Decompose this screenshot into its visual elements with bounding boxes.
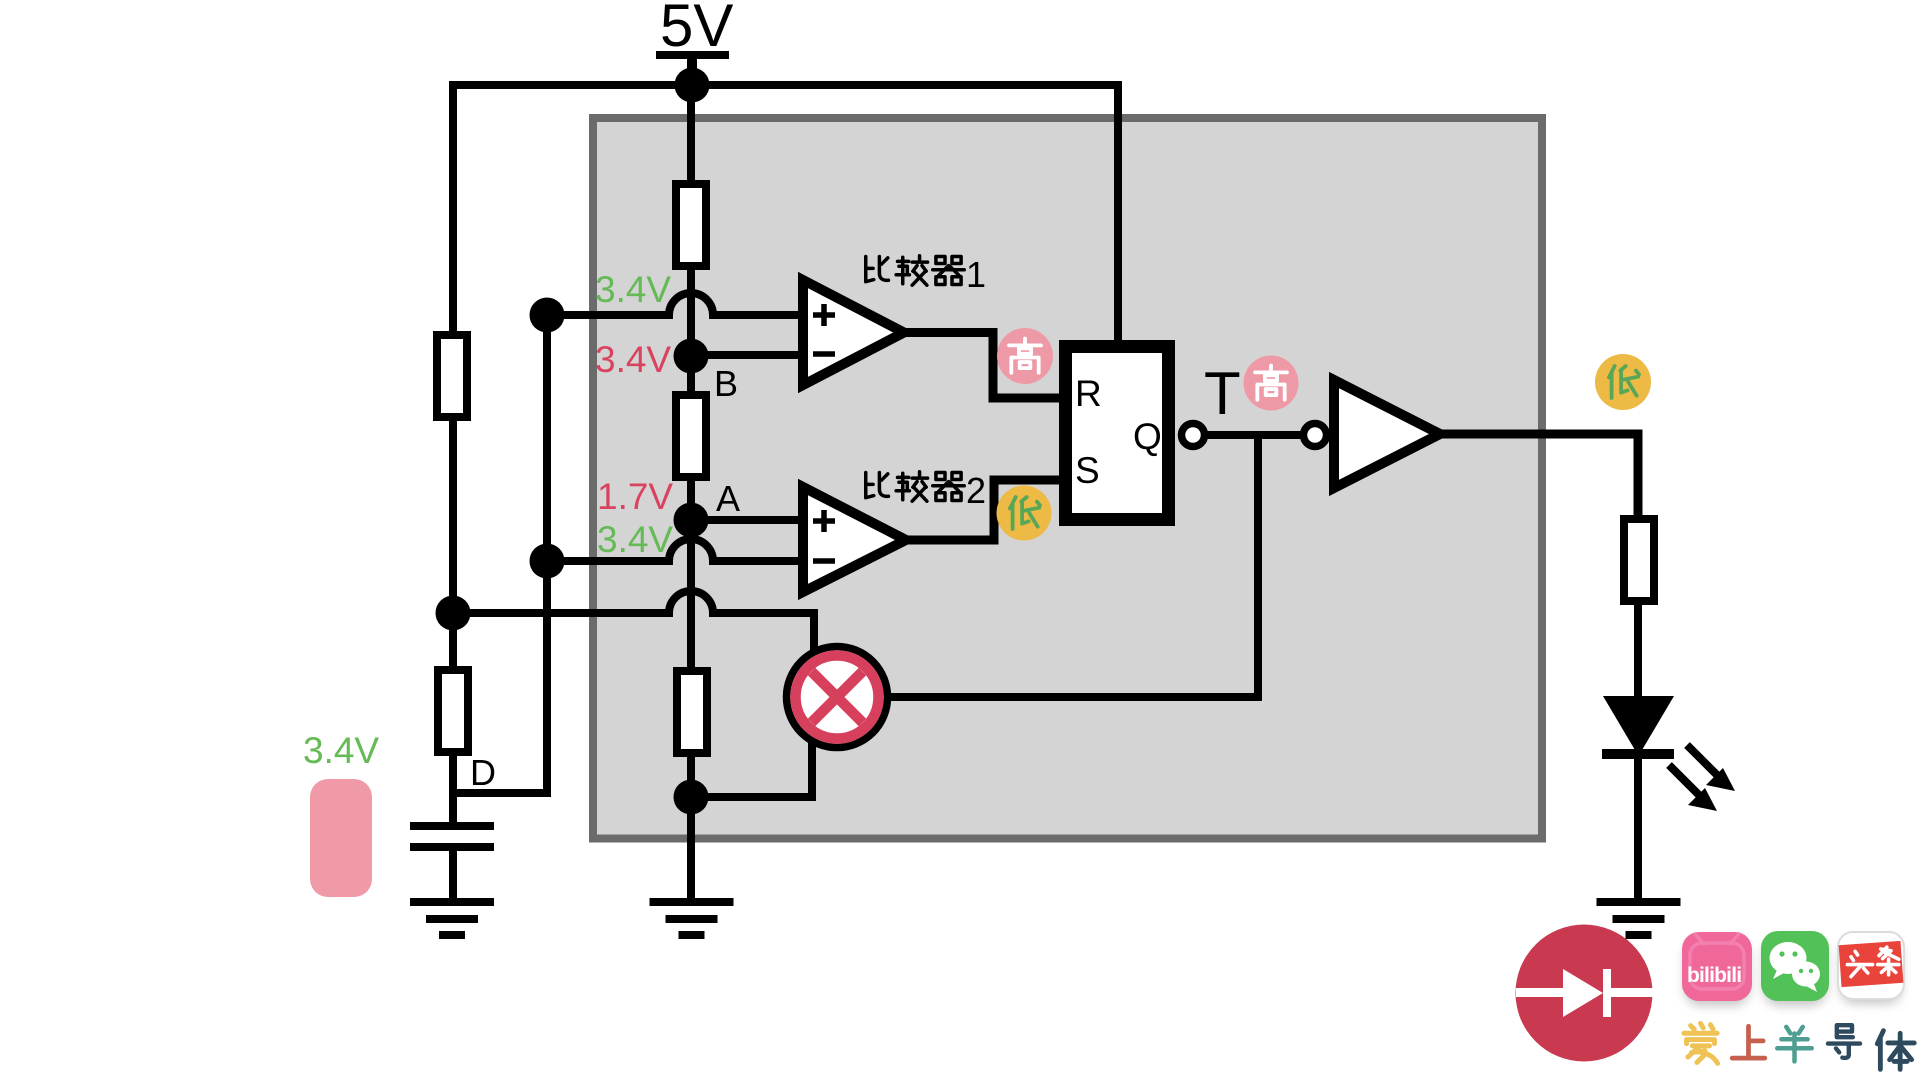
svg-text:D: D [470, 752, 496, 793]
badge low output [1595, 354, 1651, 410]
svg-text:S: S [1075, 450, 1100, 491]
LED D1 [1602, 696, 1735, 811]
wire control rail x546 [455, 315, 547, 793]
svg-text:3.4V: 3.4V [595, 339, 671, 380]
node left mid junction [530, 544, 565, 579]
logo red diode circle [1516, 925, 1654, 1062]
wire discharge bottom link [691, 742, 812, 797]
wire LED to ground [1634, 757, 1642, 898]
comparator U1 triangle [803, 280, 904, 385]
label comparator1 title [866, 254, 986, 295]
capacitor C [410, 822, 494, 898]
label comparator2 title [866, 470, 986, 511]
wire resistor chain [687, 85, 695, 898]
logo wechat icon [1761, 931, 1829, 1001]
badge high comparator1 output [997, 328, 1053, 384]
svg-text:2: 2 [966, 470, 986, 511]
comparator U2 triangle [803, 487, 906, 592]
svg-text:3.4V: 3.4V [597, 519, 673, 560]
IC body gray box [593, 118, 1542, 839]
wire T line [1205, 431, 1302, 439]
resistor left lower [438, 670, 468, 752]
capacitor voltage pink marker [310, 779, 372, 897]
buffer U4 triangle [1334, 380, 1440, 488]
wire output to LED branch [1438, 434, 1638, 519]
wire top rail [453, 85, 1118, 345]
wire discharge to T line [885, 435, 1258, 697]
resistor right [1624, 519, 1654, 601]
logo bilibili icon [1682, 932, 1752, 1001]
svg-text:Q: Q [1133, 416, 1162, 457]
svg-text:1.7V: 1.7V [597, 476, 673, 517]
svg-text:5V: 5V [660, 0, 733, 59]
svg-text:T: T [1204, 360, 1241, 427]
ground right [1597, 898, 1681, 939]
discharge transistor lamp symbol [787, 647, 888, 748]
icon shadows [1684, 939, 1902, 1006]
node B junction [674, 339, 709, 374]
5V supply symbol [656, 0, 733, 85]
wire threshold line to comparator1 + with hop [547, 293, 807, 315]
svg-text:B: B [714, 363, 738, 404]
wire left rail [449, 85, 457, 822]
ground center [650, 898, 734, 939]
node buffer input bubble [1304, 424, 1327, 447]
wire trigger line to comparator2 - with hop [547, 539, 807, 561]
svg-text:3.4V: 3.4V [303, 730, 379, 771]
badge low comparator2 output [997, 486, 1052, 541]
wire comparator2 output to S [904, 480, 1062, 540]
node 5V junction [675, 68, 710, 103]
wire node A to comparator2 + [691, 516, 807, 524]
resistor left upper [437, 335, 467, 417]
node A junction [674, 503, 709, 538]
node chain bottom junction [674, 780, 709, 815]
node left lower junction [436, 596, 471, 631]
badge high T [1244, 356, 1299, 411]
logo text ai shang ban dao ti [1684, 1023, 1914, 1069]
flip-flop U3 RS latch box [1066, 347, 1169, 520]
svg-text:3.4V: 3.4V [595, 269, 671, 310]
node left upper junction [530, 298, 565, 333]
svg-text:bilibili: bilibili [1687, 964, 1741, 987]
svg-text:A: A [716, 478, 740, 519]
wire comparator1 output to R [904, 333, 1062, 399]
resistor R1 top of chain [676, 184, 706, 266]
wire node B to comparator1 - [691, 351, 807, 359]
resistor R2 middle of chain [676, 395, 706, 477]
wire trigger horizontal y613 with hop to discharge [453, 591, 814, 650]
resistor R3 bottom of chain [677, 671, 707, 753]
ground left [410, 898, 494, 939]
svg-text:1: 1 [966, 254, 986, 295]
svg-text:R: R [1075, 373, 1102, 414]
logo toutiao icon [1838, 932, 1904, 999]
node Q output bubble [1182, 424, 1205, 447]
wire resistor to LED [1634, 600, 1642, 700]
